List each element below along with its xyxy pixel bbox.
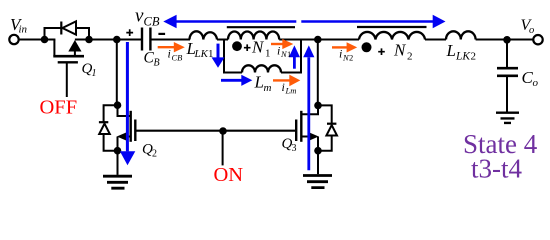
wire Lm loop bottom left <box>223 72 242 74</box>
svg-text:L: L <box>254 73 264 92</box>
svg-text:L: L <box>446 41 456 60</box>
svg-text:m: m <box>264 82 272 94</box>
diode of Q3 cathode bar <box>327 123 336 125</box>
wire: node E down to Co <box>506 40 508 68</box>
svg-text:1: 1 <box>265 48 271 60</box>
terminal Vin <box>9 35 18 44</box>
wire: LLK1 to N1 <box>217 39 228 41</box>
current arrow orange iN1 <box>271 43 283 45</box>
transistor Q3 channel bar <box>300 111 302 142</box>
svg-text:Lm: Lm <box>285 86 297 96</box>
wire Lm loop right vertical <box>300 40 302 73</box>
svg-text:N: N <box>251 38 265 57</box>
svg-text:N: N <box>393 41 407 60</box>
transistor Q2 channel bar <box>129 111 131 142</box>
svg-text:1: 1 <box>287 49 291 59</box>
transistor Q3 source lead <box>301 137 318 151</box>
svg-text:LK: LK <box>455 51 471 63</box>
svg-text:CB: CB <box>172 52 183 62</box>
transistor Q1 gate bar <box>58 61 78 63</box>
svg-text:in: in <box>19 24 28 36</box>
transistor Q2 drain lead <box>118 104 131 116</box>
label + of N2 <box>378 48 385 55</box>
diode of Q2 cathode bar <box>99 121 108 123</box>
diode of Q3 triangle <box>326 125 337 135</box>
transistor Q3 drain node dot <box>314 102 322 110</box>
transistor Q3 gate bar <box>295 120 297 142</box>
terminal Vo <box>533 35 542 44</box>
wire Lm loop left vertical <box>223 40 225 73</box>
current arrow orange iLm <box>273 79 290 81</box>
winding N1 coil <box>228 31 279 39</box>
svg-text:i: i <box>282 80 285 94</box>
diode of Q3 branch wire bottom <box>318 136 332 151</box>
diode D1 triangle <box>62 21 76 34</box>
ground of Co <box>496 113 519 123</box>
node E dot <box>503 36 511 44</box>
transistor Q1 channel bar <box>53 55 84 58</box>
diode of Q3 branch wire top <box>318 105 332 123</box>
wire: N2 to LLK2 <box>425 39 446 41</box>
wire: Co to ground <box>506 76 508 112</box>
wire: node C down to Q2 <box>116 40 118 106</box>
svg-text:2: 2 <box>471 51 477 63</box>
inductor LLK1 <box>190 31 218 39</box>
svg-text:B: B <box>154 58 160 69</box>
svg-text:t3-t4: t3-t4 <box>471 153 522 183</box>
node B dot <box>85 36 93 44</box>
svg-text:i: i <box>277 43 280 57</box>
transistor Q1 gate lead <box>66 63 68 97</box>
svg-text:1: 1 <box>92 68 97 79</box>
diode of Q2 branch wire top <box>104 105 118 122</box>
label + of N1 <box>244 44 251 51</box>
current arrow blue top-left (pointing left) <box>176 20 297 23</box>
diode of Q2 triangle <box>99 124 110 134</box>
current arrow blue up long (through Q3) <box>307 57 310 170</box>
transistor Q2 gate bar <box>134 120 136 142</box>
winding N1 phase dot <box>232 41 242 51</box>
svg-text:2: 2 <box>349 53 353 63</box>
svg-text:2: 2 <box>152 149 157 160</box>
winding N2 core bar <box>357 26 427 28</box>
wire: gate junction down <box>222 131 224 165</box>
wire: Vin to Q1 drain corner <box>19 39 56 41</box>
transistor Q3 source node dot <box>314 147 322 155</box>
label + of CB <box>126 29 133 36</box>
transistor Q2 source arrow <box>117 132 128 141</box>
diode of Q2 branch wire bottom <box>104 134 118 151</box>
current arrow blue top-right (pointing right) <box>301 20 433 23</box>
svg-text:ON: ON <box>214 164 244 186</box>
ground of Q3 <box>303 176 332 188</box>
transistor Q2 source node dot <box>114 147 122 155</box>
svg-text:2: 2 <box>407 51 413 63</box>
wire: Q1 source to CB left plate <box>75 39 141 41</box>
svg-text:OFF: OFF <box>40 97 78 119</box>
wire: Q2 source to ground <box>117 151 119 175</box>
svg-text:CB: CB <box>144 15 160 29</box>
transistor Q1 source arrow <box>68 40 81 52</box>
svg-text:o: o <box>529 25 534 36</box>
wire: Q3 source to ground <box>317 151 319 175</box>
current arrow blue small down (at LLK1) <box>217 44 220 58</box>
winding N2 coil <box>359 32 425 40</box>
wire: gate bus Q2 to Q3 <box>135 130 296 132</box>
current arrow blue up short (at N1 right) <box>293 57 296 69</box>
wire node D down to Q3 <box>317 40 319 106</box>
current arrow orange iCB <box>158 46 175 48</box>
wire Lm loop bottom right <box>281 72 302 74</box>
transistor Q2 drain node dot <box>114 101 122 109</box>
diode branch wire over Q1 <box>45 28 90 40</box>
svg-text:3: 3 <box>292 143 297 154</box>
transistor Q2 source lead <box>118 137 131 151</box>
svg-text:o: o <box>533 77 539 89</box>
wire: N1 to N2 through node D <box>279 39 359 41</box>
transistor Q3 drain lead <box>301 104 318 114</box>
capacitor Co plates <box>497 68 518 76</box>
current arrow orange iN2 <box>332 46 347 48</box>
wire: CB to LLK1 <box>152 39 191 41</box>
wire: LLK2 to Vo <box>476 39 534 41</box>
node gate junction dot <box>219 127 227 135</box>
svg-text:i: i <box>168 47 171 61</box>
label - of CB <box>158 33 165 35</box>
transistor Q1 source lead <box>74 50 76 56</box>
ground of Q2 <box>103 176 132 188</box>
transistor Q3 source arrow <box>308 132 319 141</box>
capacitor CB plates <box>142 28 150 51</box>
current arrow blue left vertical (down through Q2) <box>126 42 129 151</box>
node D dot <box>314 36 322 44</box>
node C dot <box>113 36 121 44</box>
transistor Q1 drain lead <box>53 40 55 57</box>
current arrow blue right (in Lm loop) <box>221 79 242 82</box>
winding N1 core bar <box>227 26 295 28</box>
inductor LLK2 <box>446 31 476 39</box>
svg-text:i: i <box>339 47 342 61</box>
diode D1 cathode bar <box>60 22 62 35</box>
node A dot <box>41 36 49 44</box>
svg-text:LK: LK <box>194 48 209 60</box>
winding N2 phase dot <box>362 42 372 52</box>
inductor Lm <box>242 65 281 72</box>
